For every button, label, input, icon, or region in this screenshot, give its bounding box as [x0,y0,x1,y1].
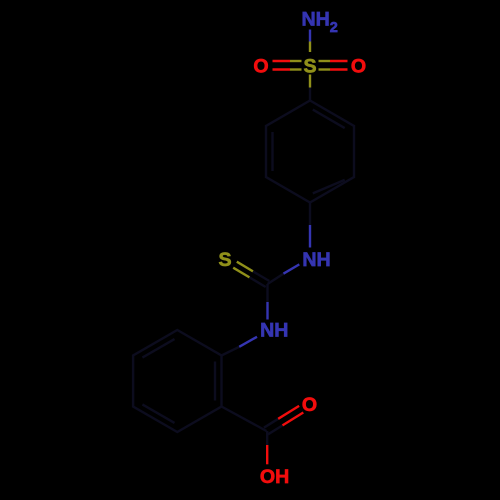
svg-text:S: S [303,55,316,77]
svg-text:O: O [351,55,366,77]
svg-text:NH: NH [302,9,330,31]
bond C2-O4 hydroxyl (red half) [266,445,268,464]
ring 1 inner double bond line (upper right edge) [313,110,345,129]
double bond C2=O3 line 2 (carbon half then red half) [264,419,278,428]
bond ring1 bottom - N2 (carbon half) [309,203,311,226]
double bond S1=O2 line 1 [319,60,331,62]
bond C2-O4 hydroxyl (carbon half) [266,431,268,445]
double bond S1=O2 line 2 [319,68,331,70]
bond S1-ring1 top (sulfur half) [309,75,311,88]
bond N2-C1 (carbon half) [268,274,284,284]
benzene ring 1 (para-phenylene) outline [266,101,354,203]
bond N3-ring2 (carbon half) [222,347,240,356]
bond N3-ring2 (blue half) [239,337,257,347]
double bond S1=O1 line 1 [273,60,291,62]
bond N2-C1 (blue half) [283,264,299,273]
bond C1-N3 (blue half) [266,302,268,320]
bond N1-S1 (sulfur half) [309,42,311,53]
ring 1 inner double bond line (left edge) [271,132,273,171]
svg-text:S: S [218,249,231,271]
svg-text:NH: NH [260,320,288,342]
bond ring1 bottom - N2 (blue half) [309,225,311,248]
double bond C2=O3 line 1 (carbon half then red half) [268,425,282,434]
ring 2 inner double bond line (upper left edge) [142,339,174,358]
ring 2 inner double bond line (right edge) [214,362,216,401]
double bond C1=S2 line 2 (sulfur half then carbon half) [233,268,249,278]
svg-text:OH: OH [260,466,289,488]
benzene ring 2 (benzoic acid ring) outline [133,330,221,432]
ring 1 inner double bond line (lower right edge) [313,180,345,194]
atom label N1 (sulfonamide NH2) [302,9,338,37]
double bond S1=O1 line 2 [273,68,291,70]
svg-text:O: O [253,55,268,77]
svg-text:O: O [302,394,317,416]
ring 2 inner double bond line (lower left edge) [142,404,174,423]
bond C1-N3 (carbon half) [266,284,268,302]
bond ring2 - C2 carboxyl (carbon) [222,407,267,432]
bond S1-ring1 top (carbon half) [309,88,311,101]
svg-text:2: 2 [330,20,338,36]
double bond C1=S2 line 1 (sulfur half then carbon half) [237,262,253,272]
bond N1-S1 (blue half) [309,30,311,42]
svg-text:NH: NH [302,249,330,271]
